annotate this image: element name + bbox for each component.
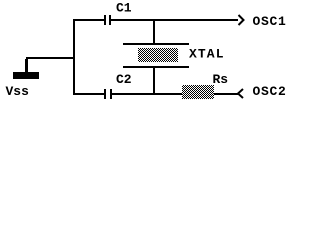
node OSC2 (pin arrow + label) xyxy=(238,84,287,99)
wire: bottom-left horizontal from left vertical to C2 xyxy=(73,93,104,95)
wire: vertical stub from XTAL bottom plate to bottom wire xyxy=(153,68,155,93)
wire: ground branch horizontal xyxy=(26,57,75,59)
crystal XTAL xyxy=(123,43,225,68)
svg-text:C2: C2 xyxy=(116,72,132,87)
resistor Rs xyxy=(182,72,228,99)
svg-text:Vss: Vss xyxy=(6,84,30,99)
capacitor C1 xyxy=(104,1,132,26)
wire: bottom horizontal from C2 to Rs xyxy=(112,93,182,95)
svg-text:OSC2: OSC2 xyxy=(253,84,287,99)
svg-text:Rs: Rs xyxy=(213,72,229,87)
svg-text:C1: C1 xyxy=(116,1,132,16)
node OSC1 (pin arrow + label) xyxy=(239,14,287,29)
svg-text:XTAL: XTAL xyxy=(189,47,225,62)
ground Vss xyxy=(6,59,40,99)
wire: left vertical bus xyxy=(73,19,75,95)
wire: top-left horizontal from left vertical to C1 xyxy=(73,19,104,21)
wire: from Rs to OSC2 arrow xyxy=(214,93,239,95)
wire: vertical stub from top wire down to XTAL top plate xyxy=(153,21,155,43)
wire: top horizontal from C1 to OSC1 arrow xyxy=(111,19,238,21)
svg-text:OSC1: OSC1 xyxy=(253,14,287,29)
capacitor C2 xyxy=(104,72,132,99)
